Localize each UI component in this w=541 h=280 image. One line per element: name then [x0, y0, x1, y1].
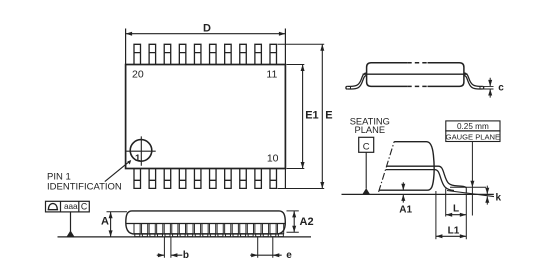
dimension D arrowheads: [126, 32, 286, 36]
top lead 20: [134, 44, 141, 64]
dimension L extension lines: [446, 189, 467, 240]
svg-text:GAUGE PLANE: GAUGE PLANE: [446, 132, 500, 141]
gauge plane box 0.25 mm: [446, 121, 500, 131]
dimension A1 arrows: [402, 182, 404, 202]
dimension E1 extension lines: [287, 65, 305, 169]
dimension A line: [110, 212, 112, 237]
bottom lead 2: [149, 169, 156, 189]
svg-text:k: k: [496, 193, 502, 204]
svg-text:E1: E1: [305, 109, 318, 121]
bottom lead 7: [225, 169, 232, 189]
dimension D line: [126, 33, 286, 35]
top lead 13: [240, 44, 247, 64]
lead detail upper line: [387, 166, 467, 188]
seating plane line detail: [342, 193, 494, 195]
gauge plane leader: [471, 142, 473, 216]
gauge plane box label: [446, 131, 500, 142]
dimension E1 line: [302, 65, 304, 169]
svg-text:c: c: [498, 82, 504, 93]
svg-text:1: 1: [135, 153, 141, 164]
dimension c extension lines: [484, 86, 494, 89]
svg-text:aaa: aaa: [64, 202, 78, 211]
datum feature frame: [46, 201, 90, 212]
svg-text:C: C: [81, 201, 88, 211]
dimension A2 extension: [287, 211, 299, 232]
body section diagonal: [379, 142, 395, 192]
gauge plane leader arrowhead: [470, 181, 474, 188]
bottom lead row pins 1-10: [134, 169, 276, 189]
body outline with dashed middle: [367, 63, 464, 87]
svg-text:20: 20: [132, 68, 144, 80]
dimension L1 extension line: [435, 191, 437, 239]
datum C box: [359, 137, 374, 152]
dimension E line: [321, 44, 323, 188]
datum triangle detail: [362, 188, 370, 194]
bottom lead 5: [194, 169, 201, 189]
top lead row pins 20-11: [134, 44, 276, 64]
bottom lead 4: [179, 169, 186, 189]
svg-text:PLANE: PLANE: [355, 125, 386, 135]
dimension c arrows: [489, 78, 491, 98]
top lead 17: [179, 44, 186, 64]
seating plane line: [58, 236, 312, 238]
bottom lead 6: [210, 169, 217, 189]
parting line: [363, 73, 468, 75]
dimension L1 line: [436, 235, 466, 237]
svg-text:D: D: [203, 23, 211, 35]
dimension D extension line left: [125, 29, 127, 65]
dimension D extension line right / body side extension: [284, 29, 286, 189]
dimension A2 line: [293, 211, 295, 232]
bottom lead 8: [240, 169, 247, 189]
top lead 16: [194, 44, 201, 64]
dimension L arrowheads: [446, 213, 467, 217]
right lead: [464, 73, 484, 89]
package body top view: [126, 65, 286, 169]
svg-text:A1: A1: [399, 205, 412, 216]
dimension b arrows: [157, 254, 183, 256]
pin 1 index circle: [130, 140, 152, 162]
svg-text:IDENTIFICATION: IDENTIFICATION: [47, 182, 122, 193]
top lead 11: [270, 44, 277, 64]
dimension L line: [446, 214, 467, 216]
datum leader detail: [365, 152, 367, 188]
svg-text:E: E: [325, 109, 332, 121]
top lead 19: [149, 44, 156, 64]
dimension b extension lines: [164, 237, 171, 258]
bottom lead 3: [164, 169, 171, 189]
bottom lead 1: [134, 169, 141, 189]
package body side view: [126, 211, 285, 234]
profile of surface symbol: [48, 204, 59, 210]
svg-text:A2: A2: [300, 216, 314, 228]
gauge plane line: [450, 186, 486, 188]
pin 1 leader arrowhead: [127, 160, 131, 165]
dimension E arrowheads: [320, 44, 324, 188]
top lead 12: [255, 44, 262, 64]
side view lead bars: [134, 224, 284, 234]
left lead: [346, 73, 367, 89]
dimension A2 arrowheads: [292, 211, 296, 232]
body outline detail: [379, 142, 434, 191]
dimension e extension lines: [258, 237, 273, 258]
bottom lead 9: [255, 169, 262, 189]
datum leader: [70, 212, 72, 232]
dimension L1 arrowheads: [436, 234, 466, 238]
top lead 14: [225, 44, 232, 64]
side view waist line: [126, 223, 285, 225]
top lead 15: [210, 44, 217, 64]
svg-text:e: e: [286, 250, 292, 261]
svg-text:0.25 mm: 0.25 mm: [457, 122, 489, 131]
dimension k arrows: [486, 186, 488, 205]
svg-text:10: 10: [267, 153, 279, 165]
foot underside k tilt line: [447, 191, 494, 197]
lead tip edge: [465, 188, 467, 193]
pin 1 leader line: [105, 162, 129, 182]
dimension E extension lines: [278, 44, 325, 188]
lead detail lower line: [386, 170, 454, 191]
dimension A extension: [107, 211, 128, 213]
svg-text:L: L: [453, 204, 459, 215]
svg-text:11: 11: [266, 68, 277, 80]
svg-text:b: b: [183, 250, 189, 261]
svg-text:A: A: [101, 216, 109, 228]
svg-text:C: C: [363, 141, 370, 152]
dimension E1 arrowheads: [301, 65, 305, 169]
svg-text:L1: L1: [448, 225, 460, 236]
dimension e line and arrows: [250, 254, 282, 256]
bottom lead 10: [270, 169, 277, 189]
top lead 18: [164, 44, 171, 64]
pin 1 crosshair: [126, 136, 155, 165]
datum triangle: [67, 230, 75, 236]
side view feet: [135, 234, 284, 237]
dimension A arrowheads: [109, 212, 113, 237]
